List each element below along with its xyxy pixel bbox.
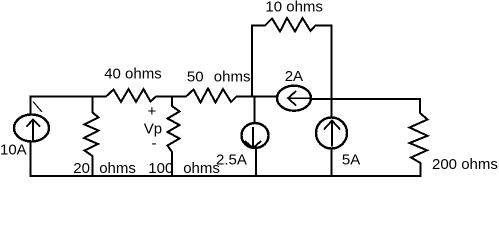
- svg-text:200 ohms: 200 ohms: [432, 156, 498, 173]
- svg-text:5A: 5A: [342, 151, 360, 168]
- svg-text:40 ohms: 40 ohms: [104, 66, 162, 83]
- svg-text:ohms: ohms: [183, 160, 220, 177]
- svg-text:ohms: ohms: [214, 68, 251, 85]
- svg-text:ohms: ohms: [99, 160, 136, 177]
- svg-text:2A: 2A: [285, 68, 303, 85]
- svg-text:100: 100: [148, 160, 173, 177]
- svg-text:+: +: [148, 103, 157, 120]
- svg-text:10 ohms: 10 ohms: [265, 0, 323, 16]
- svg-text:2.5A: 2.5A: [216, 152, 247, 169]
- svg-text:-: -: [152, 135, 157, 152]
- svg-text:50: 50: [187, 68, 204, 85]
- svg-text:10A: 10A: [0, 141, 27, 158]
- svg-text:20: 20: [73, 160, 90, 177]
